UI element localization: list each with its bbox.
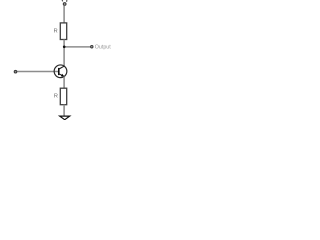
svg-text:R: R (54, 28, 58, 34)
svg-text:R: R (54, 93, 58, 99)
svg-text:Output: Output (95, 44, 111, 50)
